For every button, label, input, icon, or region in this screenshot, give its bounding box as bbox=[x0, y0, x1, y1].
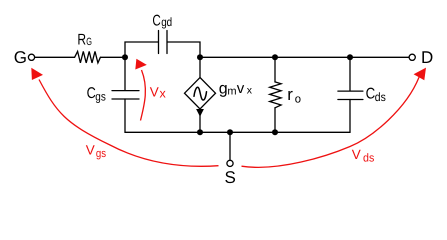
svg-text:S: S bbox=[225, 168, 236, 187]
node source bottom junction dot bbox=[197, 129, 203, 135]
svg-text:D: D bbox=[421, 48, 433, 67]
svg-text:gs: gs bbox=[96, 148, 106, 160]
capacitor C_gs plates bbox=[112, 91, 139, 99]
svg-text:C: C bbox=[152, 12, 160, 29]
dependent source G1 diamond bbox=[185, 78, 216, 110]
red arrowhead v_gs bbox=[31, 68, 43, 80]
svg-text:V: V bbox=[86, 142, 95, 157]
wire drain top rail bbox=[200, 56, 350, 58]
dependent source sine symbol bbox=[194, 87, 207, 100]
bottom rail wire bbox=[125, 131, 350, 133]
resistor r_o zigzag bbox=[270, 82, 281, 108]
svg-text:V: V bbox=[150, 85, 159, 100]
resistor r_o top wire bbox=[274, 57, 276, 82]
svg-text:x: x bbox=[160, 87, 167, 101]
svg-text:o: o bbox=[295, 94, 301, 106]
capacitor C_ds bottom wire bbox=[349, 100, 351, 133]
capacitor C_gs bottom wire bbox=[124, 99, 126, 132]
svg-text:gd: gd bbox=[161, 15, 172, 29]
node r_o bottom junction dot bbox=[272, 129, 278, 135]
svg-text:m: m bbox=[227, 85, 236, 97]
svg-text:G: G bbox=[14, 48, 27, 67]
red arrowhead v_ds bbox=[414, 68, 426, 81]
wire RG to gate node bbox=[101, 56, 126, 58]
capacitor C_gs top wire bbox=[124, 57, 126, 90]
red arrowhead v_x bbox=[135, 59, 147, 70]
red arc v_ds bbox=[242, 77, 420, 167]
node S junction dot bbox=[227, 129, 233, 135]
node drain junction dot bbox=[197, 54, 203, 60]
svg-text:g: g bbox=[219, 81, 228, 98]
svg-text:x: x bbox=[247, 85, 253, 97]
capacitor C_ds top wire bbox=[349, 57, 351, 91]
svg-text:ds: ds bbox=[375, 90, 386, 104]
wire G to RG bbox=[35, 56, 75, 58]
svg-text:r: r bbox=[287, 85, 293, 104]
capacitor C_gd branch right riser bbox=[168, 42, 201, 57]
resistor R1 RG zigzag bbox=[75, 51, 101, 63]
wire node to source top bbox=[199, 57, 201, 77]
svg-text:v: v bbox=[237, 80, 245, 97]
node C_ds top junction dot bbox=[347, 54, 353, 60]
svg-text:G: G bbox=[86, 36, 92, 48]
capacitor C_gd branch left riser bbox=[125, 42, 158, 57]
current direction arrowhead bbox=[196, 109, 204, 117]
node gate junction dot bbox=[122, 54, 128, 60]
red arc v_gs bbox=[39, 80, 219, 167]
wire S stub bbox=[229, 132, 231, 160]
wire source bottom bbox=[199, 109, 201, 132]
terminal D circle bbox=[409, 54, 415, 60]
terminal S circle bbox=[227, 160, 233, 166]
svg-text:ds: ds bbox=[363, 153, 375, 165]
svg-text:C: C bbox=[366, 86, 376, 103]
node r_o top junction dot bbox=[272, 54, 278, 60]
capacitor C_gd plates bbox=[159, 31, 168, 54]
svg-text:R: R bbox=[77, 31, 86, 48]
svg-text:gs: gs bbox=[95, 89, 106, 103]
svg-text:V: V bbox=[352, 147, 361, 162]
wire to terminal D bbox=[350, 56, 409, 58]
resistor r_o bottom wire bbox=[274, 108, 276, 133]
terminal G circle bbox=[28, 54, 34, 60]
capacitor C_ds plates bbox=[338, 91, 363, 99]
red arc v_x bbox=[141, 70, 146, 121]
